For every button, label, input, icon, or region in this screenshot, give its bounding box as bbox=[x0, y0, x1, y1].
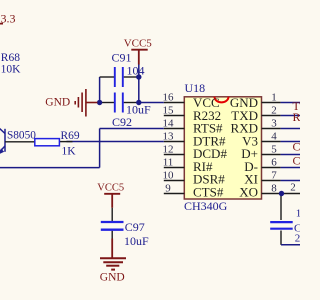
svg-text:R: R bbox=[293, 110, 301, 124]
svg-text:5: 5 bbox=[271, 143, 277, 155]
svg-text:11: 11 bbox=[163, 156, 174, 168]
svg-text:15: 15 bbox=[163, 104, 175, 116]
svg-text:3: 3 bbox=[271, 117, 277, 129]
svg-text:GND: GND bbox=[100, 272, 125, 284]
svg-text:S8050: S8050 bbox=[7, 130, 36, 142]
svg-text:10K: 10K bbox=[1, 63, 22, 75]
svg-text:C91: C91 bbox=[112, 50, 132, 64]
svg-text:VCC5: VCC5 bbox=[97, 183, 124, 194]
svg-text:7: 7 bbox=[271, 169, 277, 181]
svg-text:104: 104 bbox=[127, 64, 145, 78]
svg-text:10uF: 10uF bbox=[124, 234, 149, 248]
svg-text:XO: XO bbox=[239, 184, 258, 199]
svg-text:8: 8 bbox=[271, 182, 277, 194]
svg-text:1: 1 bbox=[271, 91, 277, 103]
svg-text:CH340G: CH340G bbox=[184, 199, 228, 213]
svg-text:C: C bbox=[293, 140, 301, 154]
svg-text:GND: GND bbox=[45, 97, 70, 109]
svg-text:16: 16 bbox=[163, 91, 175, 103]
svg-text:R69: R69 bbox=[61, 130, 80, 142]
svg-text:12: 12 bbox=[163, 143, 174, 155]
svg-text:C97: C97 bbox=[125, 220, 145, 234]
svg-text:VCC5: VCC5 bbox=[124, 38, 153, 50]
svg-text:2: 2 bbox=[295, 232, 300, 244]
svg-text:4: 4 bbox=[271, 130, 277, 142]
svg-text:1: 1 bbox=[296, 208, 300, 220]
svg-text:R68: R68 bbox=[1, 52, 20, 64]
svg-text:10: 10 bbox=[163, 169, 175, 181]
svg-text:13: 13 bbox=[163, 130, 175, 142]
svg-text:C92: C92 bbox=[112, 115, 132, 129]
svg-text:9: 9 bbox=[165, 182, 171, 194]
svg-text:C: C bbox=[293, 153, 301, 167]
svg-text:14: 14 bbox=[163, 117, 175, 129]
svg-text:6: 6 bbox=[271, 156, 277, 168]
svg-text:2: 2 bbox=[290, 182, 296, 194]
svg-text:2: 2 bbox=[271, 104, 277, 116]
svg-text:U18: U18 bbox=[185, 81, 206, 95]
svg-text:CTS#: CTS# bbox=[193, 184, 224, 199]
svg-text:1K: 1K bbox=[62, 145, 77, 157]
